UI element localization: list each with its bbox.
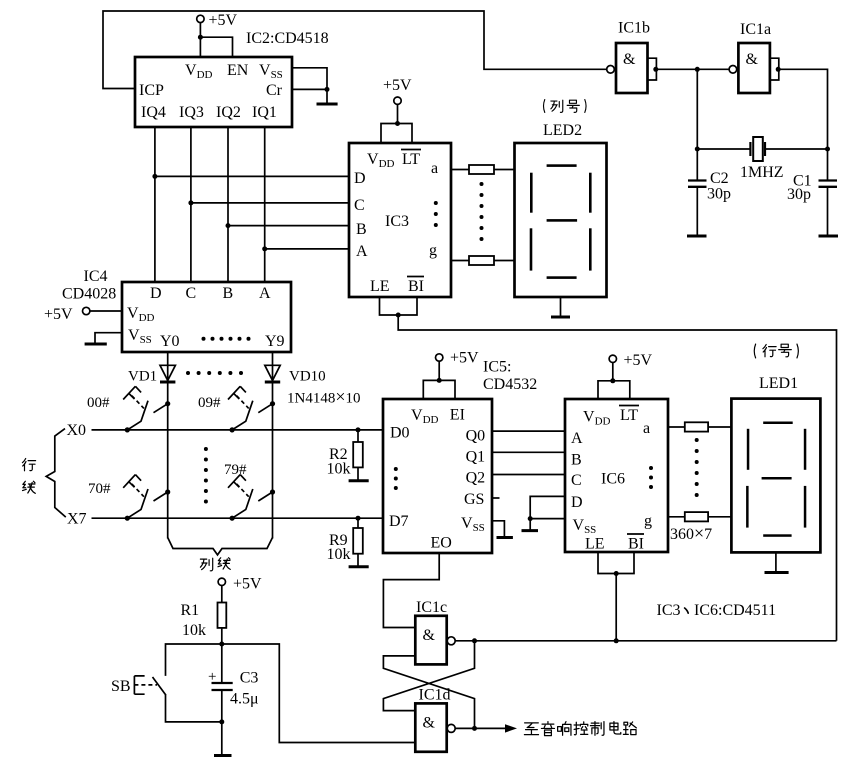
LED1 segment bottom-left — [746, 486, 749, 528]
wire IQ2 vertical — [227, 127, 229, 282]
wire column Y9 — [272, 382, 274, 539]
wire LE/BI down to latch output line — [615, 574, 617, 641]
svg-text:CD4028: CD4028 — [62, 286, 116, 303]
IC2 CD4518 counter — [135, 57, 292, 127]
wire row X0 to IC5 D0 — [92, 429, 384, 431]
switch 79# — [228, 475, 275, 521]
wire crystal left — [697, 148, 750, 150]
ground LED2 — [560, 297, 562, 317]
label 行线 — [22, 459, 35, 471]
LED1 segment middle — [762, 477, 792, 480]
svg-text:+5V: +5V — [233, 576, 262, 593]
svg-text:+5V: +5V — [450, 350, 479, 367]
node crystal left — [695, 147, 700, 152]
node D/VSS ground junction — [528, 516, 533, 521]
svg-text:10k: 10k — [327, 461, 351, 478]
wire Cr to ground — [292, 88, 327, 90]
svg-text:SB: SB — [111, 678, 131, 695]
LED2 box — [515, 143, 607, 297]
wire IC1b output down to crystal rail — [696, 69, 698, 149]
LED2 segment bottom-right — [589, 228, 592, 270]
svg-text:B: B — [356, 221, 367, 238]
capacitor C2 — [696, 149, 698, 180]
dots between rows — [204, 447, 208, 504]
wire SB bottom to C3 bottom junction — [166, 694, 222, 722]
svg-text:IC6: IC6 — [601, 471, 625, 488]
label 列线 — [200, 558, 212, 571]
svg-text:C: C — [571, 472, 582, 489]
svg-text:IC3: IC3 — [657, 602, 681, 619]
svg-text:IQ1: IQ1 — [252, 104, 277, 121]
svg-text:+5V: +5V — [383, 77, 412, 94]
wire IC3 a to resistor — [451, 169, 469, 171]
node IC3 supply junction — [395, 121, 400, 126]
IC5 CD4532 box — [383, 399, 492, 553]
svg-text:00#: 00# — [87, 395, 110, 411]
wire +5V down to IC6 bracket — [612, 362, 614, 381]
svg-text:30p: 30p — [707, 186, 731, 203]
+5V terminal keypad pull-up — [218, 578, 225, 585]
gate IC1c — [415, 616, 446, 665]
wire resistor g to LED1 — [708, 516, 731, 518]
+5V terminal IC2 — [197, 15, 204, 22]
wire column Y0 — [167, 382, 169, 539]
svg-text:+5V: +5V — [209, 12, 238, 29]
node VSS/Cr junction — [325, 87, 330, 92]
svg-text:IQ2: IQ2 — [216, 104, 241, 121]
brace column lines — [168, 538, 273, 555]
svg-text:30p: 30p — [787, 186, 811, 203]
LED1 segment top-right — [804, 429, 807, 470]
wire IQ1 vertical — [264, 127, 266, 282]
dots between diodes — [186, 371, 243, 375]
wire LE/BI feedback to IC1c output (right edge) — [398, 315, 836, 641]
node IQ4/D junction — [152, 174, 157, 179]
wire +5V down to IC5 bracket — [438, 361, 440, 381]
svg-text:IC3: IC3 — [385, 213, 409, 230]
wire IC6 VDD/LT bracket — [598, 381, 630, 399]
wire +5V to R1 — [221, 585, 223, 602]
wire resistor g to LED2 — [494, 260, 514, 262]
ground IC4 — [85, 343, 107, 346]
dots inside IC3 — [434, 201, 438, 227]
node IC1d output junction — [472, 726, 477, 731]
svg-text:LE: LE — [585, 536, 605, 553]
node IC6 supply junction — [610, 378, 615, 383]
resistor R2 — [357, 430, 359, 442]
svg-text:360×7: 360×7 — [670, 523, 712, 543]
capacitor C1 — [827, 149, 829, 180]
wire Y0 pin down — [167, 352, 169, 382]
dots between segment resistors LED2 — [480, 182, 484, 241]
+5V terminal IC5 — [436, 354, 443, 361]
wire IC6 LE/BI bracket — [598, 552, 634, 574]
LED2 segment top — [547, 164, 577, 167]
wire resistor to LED1 — [708, 426, 731, 428]
ground R2 — [357, 467, 359, 480]
svg-text:+5V: +5V — [624, 352, 653, 369]
svg-text:Y9: Y9 — [265, 333, 285, 350]
svg-text:+: + — [208, 669, 216, 685]
wire +5V to VDD pin IC2 — [199, 22, 201, 57]
LED1 segment top-left — [747, 429, 750, 470]
svg-text:IC4: IC4 — [84, 268, 108, 285]
svg-text:BI: BI — [408, 278, 424, 295]
svg-text:10k: 10k — [327, 546, 351, 563]
wire cross-coupling IC1c to IC1d — [383, 656, 474, 729]
ground LED1 — [775, 552, 777, 572]
svg-text:IC2:CD4518: IC2:CD4518 — [246, 30, 329, 47]
node IC1b output — [653, 67, 658, 72]
resistor R9 — [357, 518, 359, 528]
svg-text:1MHZ: 1MHZ — [740, 164, 784, 181]
node X0/R2 junction — [356, 427, 361, 432]
svg-text:A: A — [571, 430, 583, 447]
svg-text:LED1: LED1 — [759, 375, 798, 392]
svg-text:CD4532: CD4532 — [483, 376, 537, 393]
svg-text:&: & — [423, 627, 436, 644]
svg-text:R1: R1 — [181, 602, 200, 619]
svg-text:EI: EI — [450, 407, 465, 424]
wire Q2 to IC6 C — [492, 474, 565, 476]
svg-text:10k: 10k — [182, 622, 206, 639]
node IC1c output / cross junction — [472, 638, 477, 643]
ground IC5 — [497, 536, 513, 539]
svg-text:D0: D0 — [390, 425, 410, 442]
wire +5V to IC4 VDD — [90, 310, 122, 312]
dots between Y0 and Y9 — [202, 337, 251, 341]
wire ICP feedback loop from IC2 ICP pin to IC1b input — [103, 11, 607, 89]
wire IC4 VSS to ground — [95, 333, 122, 343]
svg-text:IC5:: IC5: — [483, 359, 511, 376]
svg-text:Cr: Cr — [266, 82, 283, 99]
svg-text:09#: 09# — [198, 395, 221, 411]
wire VSS to ground — [292, 68, 327, 90]
svg-text:C2: C2 — [710, 170, 729, 187]
svg-text:A: A — [356, 243, 368, 260]
node oscillator left junction — [695, 67, 700, 72]
svg-text:D: D — [571, 494, 583, 511]
node LE/BI drop junction — [614, 638, 619, 643]
wire EO to IC1c input — [383, 553, 439, 628]
svg-text:IC1d: IC1d — [419, 687, 451, 704]
svg-text:D: D — [150, 285, 162, 302]
svg-text:a: a — [431, 160, 438, 177]
svg-text:IC1c: IC1c — [416, 599, 447, 616]
node crystal right — [825, 147, 830, 152]
wire IC3 LE/BI bracket — [380, 297, 418, 315]
svg-text:Y0: Y0 — [160, 333, 180, 350]
node IQ1/A junction — [262, 246, 267, 251]
dots inside IC5 — [394, 467, 398, 490]
wire IC1c output line — [455, 640, 836, 642]
IC4 CD4028 decoder — [122, 282, 291, 352]
wire crystal right — [765, 148, 828, 150]
ground IC2 — [326, 89, 328, 104]
wire row X7 to IC5 D7 — [92, 517, 384, 519]
diode VD1 — [160, 365, 175, 380]
svg-text:IQ3: IQ3 — [179, 104, 204, 121]
resistor segment g (列号) — [469, 256, 494, 265]
svg-text:Q2: Q2 — [466, 470, 486, 487]
wire junction left to SB — [166, 644, 222, 676]
gate IC1a — [738, 43, 770, 93]
switch 09# — [228, 386, 275, 432]
arrow to audio control — [505, 724, 517, 732]
op-amp, actually IC3 CD4511 box — [349, 143, 451, 297]
svg-text:LE: LE — [370, 278, 390, 295]
wire +5V down to IC3 supply bracket — [397, 104, 399, 123]
LED1 segment bottom-right — [804, 486, 807, 528]
svg-text:VD10: VD10 — [289, 369, 326, 385]
node C3/SB junction — [219, 719, 224, 724]
wire IQ1 to IC3 A — [265, 248, 349, 250]
switch 00# — [123, 386, 170, 432]
wire IC5 VDD/EI bracket — [423, 380, 455, 399]
svg-text:C: C — [186, 285, 197, 302]
gate IC1d — [415, 703, 446, 751]
wire Q0 to IC6 A — [492, 430, 565, 432]
LED1 segment top — [763, 422, 793, 425]
svg-text:79#: 79# — [224, 462, 247, 478]
svg-text:&: & — [423, 715, 436, 732]
svg-text:LED2: LED2 — [543, 122, 582, 139]
ground C1 — [819, 235, 839, 238]
label 至音响控制电路 — [524, 722, 636, 736]
wire IQ3 to IC3 C — [191, 202, 349, 204]
svg-text:ICP: ICP — [139, 82, 164, 99]
wire IQ2 to IC3 B — [228, 225, 349, 227]
node R1/C3 junction — [219, 642, 224, 647]
wire IC3 VDD/LT bracket — [381, 124, 412, 144]
resistor segment a (列号) — [469, 165, 494, 174]
dots inside IC6 — [649, 466, 653, 489]
ground C3 — [221, 722, 223, 755]
node IC5 supply junction — [437, 378, 442, 383]
wire branch to EN pin IC2 — [200, 37, 232, 57]
svg-text:4.5μ: 4.5μ — [230, 691, 259, 708]
svg-text:+5V: +5V — [44, 306, 73, 323]
wire resistor to LED2 — [494, 169, 514, 171]
wire IC1b output to IC1a input — [656, 68, 729, 70]
wire IQ3 vertical — [190, 127, 192, 282]
wire IC6 VSS to junction — [530, 518, 565, 520]
wire IC1d output with arrow — [455, 727, 506, 729]
svg-text:IC1a: IC1a — [740, 21, 771, 38]
svg-text:EN: EN — [227, 62, 249, 79]
resistor segment a (行号) — [685, 422, 708, 431]
wire IQ4 vertical — [154, 127, 156, 282]
svg-text:g: g — [644, 513, 652, 530]
wire IC3 g to resistor — [451, 260, 469, 262]
svg-text:X7: X7 — [67, 511, 87, 528]
node IQ3/C junction — [188, 200, 193, 205]
wire IC6 D to ground bracket — [530, 496, 565, 518]
svg-text:GS: GS — [464, 491, 484, 508]
node X7/R9 junction — [356, 516, 361, 521]
wire Y9 pin down — [272, 352, 274, 382]
crystal X1 1MHZ — [749, 142, 751, 156]
svg-text:IC1b: IC1b — [618, 20, 650, 37]
wire IC6 a to resistor — [668, 426, 685, 428]
svg-text:D: D — [354, 170, 366, 187]
svg-text:IC6:CD4511: IC6:CD4511 — [694, 602, 776, 619]
svg-text:B: B — [223, 285, 234, 302]
resistor R1 — [218, 603, 227, 628]
svg-text:LT: LT — [402, 151, 420, 168]
svg-text:LT: LT — [620, 407, 638, 424]
gate IC1b — [616, 43, 648, 93]
dots between segment resistors LED1 — [695, 438, 699, 497]
ground C2 — [687, 235, 707, 238]
wire IC1a output to right rail — [779, 69, 828, 149]
wire junction right to IC1d input — [222, 644, 415, 743]
wire IQ4 to IC3 D — [155, 175, 349, 177]
svg-text:C: C — [354, 197, 365, 214]
svg-text:B: B — [571, 452, 582, 469]
svg-text:X0: X0 — [67, 422, 87, 439]
LED1 segment bottom — [763, 534, 791, 537]
diode VD10 — [265, 365, 280, 380]
svg-text:EO: EO — [431, 535, 452, 552]
LED2 segment bottom-left — [530, 228, 533, 270]
LED2 segment top-right — [589, 173, 592, 213]
LED2 segment top-left — [530, 173, 533, 213]
label (列号) — [544, 100, 587, 113]
IC6 CD4511 box — [565, 399, 668, 552]
ground IC6 — [529, 519, 531, 530]
svg-text:VD1: VD1 — [128, 369, 157, 385]
svg-text:C3: C3 — [240, 670, 259, 687]
svg-text:BI: BI — [628, 536, 644, 553]
svg-text:Q1: Q1 — [466, 449, 486, 466]
node IQ2/B junction — [226, 223, 231, 228]
LED2 segment middle — [547, 219, 578, 222]
wire IC6 g to resistor — [668, 516, 685, 518]
capacitor C3 — [221, 644, 223, 683]
node IC6 LE/BI junction — [614, 571, 619, 576]
wire IC5 VSS to ground — [492, 521, 504, 537]
node IC1a output — [776, 67, 781, 72]
svg-text:Q0: Q0 — [466, 428, 486, 445]
wire R1 to junction — [221, 628, 223, 644]
resistor segment g (行号) — [685, 512, 708, 521]
wire GS stub — [492, 497, 500, 499]
LED2 segment bottom — [547, 276, 577, 279]
ground R9 — [357, 554, 359, 567]
svg-text:g: g — [429, 242, 437, 259]
wire Q1 to IC6 B — [492, 451, 565, 453]
+5V terminal IC6 — [609, 355, 616, 362]
brace row lines — [46, 429, 66, 517]
label (行号) — [754, 344, 798, 358]
node LE/BI junction — [396, 313, 401, 318]
svg-text:&: & — [623, 51, 636, 68]
svg-text:70#: 70# — [88, 481, 111, 497]
svg-text:&: & — [746, 51, 759, 68]
switch 70# — [123, 475, 170, 521]
svg-text:IQ4: IQ4 — [141, 104, 166, 121]
svg-text:D7: D7 — [389, 513, 409, 530]
node VDD/EN junction — [198, 35, 203, 40]
svg-text:A: A — [259, 285, 271, 302]
LED1 box — [731, 399, 820, 553]
svg-text:a: a — [643, 420, 650, 437]
